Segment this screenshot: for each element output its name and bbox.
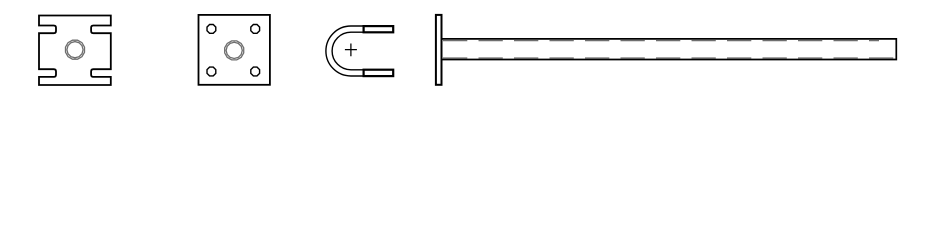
- bolt hole B1 (top-left of plate P2): [207, 25, 216, 34]
- U-bolt U1 (bend and legs): [326, 26, 364, 76]
- thread line T1 (upper thread depth, dashed): [443, 40, 879, 42]
- center mark CM1 (cross at U-bolt bend center): [345, 44, 357, 57]
- bolt hole B2 (top-right of plate P2): [251, 25, 260, 34]
- nut plate N1 (upper leg of U-bolt U1): [364, 26, 394, 32]
- thread line T2 (lower thread depth, dashed): [443, 57, 896, 59]
- plate P1 (square clamp plate with four edge notches): [39, 16, 111, 86]
- rod R1 (long threaded rod body): [442, 39, 897, 60]
- hole H2 (center hole of plate P2): [225, 41, 244, 60]
- plate P2 (square base plate): [199, 15, 270, 85]
- bolt hole B4 (bottom-right of plate P2): [251, 67, 260, 76]
- hole H1 (center hole of plate P1): [65, 40, 84, 59]
- bolt hole B3 (bottom-left of plate P2): [207, 67, 216, 76]
- flange F1 (anchor plate of rod R1): [436, 15, 442, 85]
- nut plate N2 (lower leg of U-bolt U1): [364, 70, 394, 76]
